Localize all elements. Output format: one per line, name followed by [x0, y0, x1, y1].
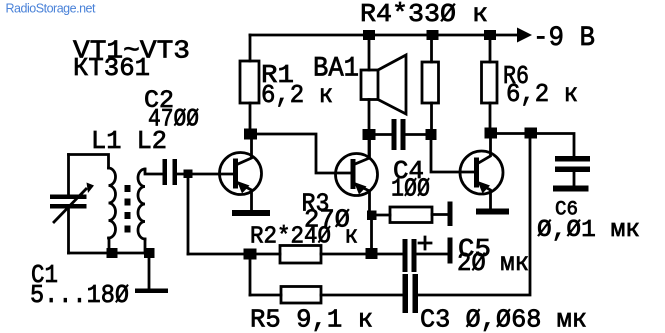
svg-text:2Ø мк: 2Ø мк [457, 248, 529, 278]
svg-text:BA1: BA1 [313, 54, 359, 85]
svg-text:6,2 к: 6,2 к [506, 79, 578, 109]
svg-text:R2*24Ø к: R2*24Ø к [250, 224, 358, 251]
svg-text:L1 L2: L1 L2 [91, 126, 167, 156]
svg-text:R5 9,1 к: R5 9,1 к [250, 305, 373, 333]
svg-text:Ø,Ø1 мк: Ø,Ø1 мк [537, 217, 640, 244]
svg-text:R4*33Ø к: R4*33Ø к [360, 0, 488, 29]
svg-text:КТ361: КТ361 [73, 53, 150, 83]
svg-text:-9 В: -9 В [533, 23, 595, 54]
svg-text:C3 Ø,Ø68 мк: C3 Ø,Ø68 мк [420, 305, 587, 333]
svg-text:6,2 к: 6,2 к [261, 80, 333, 110]
svg-text:1ØØ: 1ØØ [391, 174, 430, 204]
svg-text:RadioStorage.net: RadioStorage.net [6, 2, 97, 16]
svg-text:5...18Ø: 5...18Ø [30, 280, 129, 310]
